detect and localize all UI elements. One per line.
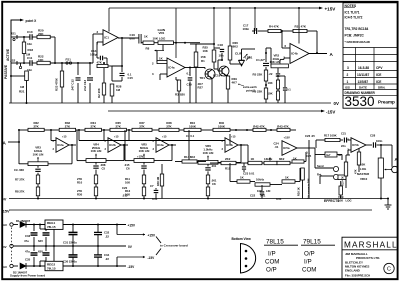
svg-text:C9 .068: C9 .068: [14, 168, 24, 172]
svg-text:IC1 TL071: IC1 TL071: [345, 11, 360, 15]
svg-text:10K LIN: 10K LIN: [139, 149, 150, 153]
capacitor C12 .047 vertical: [77, 62, 79, 64]
dashed mains boundary: [11, 228, 13, 264]
capacitor C30 2200u: [69, 254, 78, 256]
svg-text:COM: COM: [265, 259, 279, 266]
transistor TR2: [219, 66, 229, 76]
svg-text:A: A: [395, 157, 398, 162]
svg-text:+15: +15: [231, 135, 236, 139]
svg-text:1M: 1M: [116, 88, 121, 92]
svg-text:DATE: DATE: [359, 85, 367, 89]
svg-text:R5 22K: R5 22K: [253, 73, 264, 77]
svg-text:C: C: [387, 267, 391, 273]
svg-text:IC5b: IC5b: [352, 143, 359, 147]
svg-text:1K: 1K: [251, 157, 256, 161]
svg-text:R18: R18: [28, 48, 34, 52]
svg-text:TR1,TR2 BC184: TR1,TR2 BC184: [345, 27, 369, 31]
pot VR5 wiper arrow: [143, 154, 145, 159]
wire VR4 input drop: [78, 129, 80, 131]
wire +15V out PSU: [63, 224, 126, 226]
svg-text:R7 27K: R7 27K: [15, 178, 24, 182]
wire VR4 chain: [95, 162, 97, 164]
svg-text:0V: 0V: [334, 101, 339, 106]
svg-text:LOG: LOG: [346, 199, 352, 203]
resistor VR3 chain R lower 27K: [36, 187, 39, 196]
wire feedback row C17: [254, 8, 256, 31]
svg-text:.22: .22: [105, 234, 109, 238]
svg-text:IC4-5 TL072: IC4-5 TL072: [345, 16, 363, 20]
pot VR2 wiper arrow: [279, 60, 281, 64]
pot VR10 wiper arrow: [385, 169, 391, 171]
resistor VR6 chain R lower 27K: [206, 187, 209, 196]
svg-text:2n2 C13: 2n2 C13: [83, 80, 87, 91]
svg-text:1K: 1K: [144, 35, 149, 39]
svg-text:8K2: 8K2: [233, 45, 239, 49]
svg-text:-15V: -15V: [148, 256, 156, 260]
svg-text:10K: 10K: [360, 163, 366, 167]
svg-text:TR1: TR1: [200, 76, 206, 80]
svg-text:R8 27K: R8 27K: [15, 190, 24, 194]
svg-text:IC2a: IC2a: [57, 143, 64, 147]
wire VR6 pot ends: [189, 161, 198, 163]
svg-text:10kHz: 10kHz: [256, 177, 265, 181]
svg-text:C5: C5: [102, 167, 106, 171]
wire VR3 pot ends: [19, 163, 28, 165]
svg-text:R23 470K: R23 470K: [55, 77, 59, 91]
svg-text:3: 3: [152, 72, 154, 76]
svg-text:File: 3530PRE.SCH: File: 3530PRE.SCH: [345, 274, 370, 278]
svg-text:DRN.: DRN.: [378, 85, 385, 89]
svg-text:820: 820: [180, 93, 185, 97]
svg-text:I/P: I/P: [304, 259, 312, 266]
svg-text:63V: 63V: [38, 239, 43, 243]
svg-text:+15: +15: [62, 135, 67, 139]
svg-text:to Crossover board: to Crossover board: [160, 244, 188, 248]
wire +15V tap arrow: [116, 225, 118, 235]
wire VR5 chain: [143, 162, 145, 164]
svg-text:47K: 47K: [97, 60, 103, 64]
svg-text:0V: 0V: [3, 245, 7, 249]
svg-text:78L15: 78L15: [47, 225, 56, 229]
svg-text:C15: C15: [128, 76, 134, 80]
capacitor C34 47u lower: [33, 246, 35, 251]
rail 0V bottom section: [9, 198, 388, 200]
svg-text:NP: NP: [338, 153, 342, 157]
svg-text:10K: 10K: [203, 49, 209, 53]
svg-text:10n: 10n: [219, 54, 224, 58]
svg-text:BC184: BC184: [213, 74, 222, 78]
capacitor C31 2200u: [69, 231, 78, 233]
svg-text:10K LIN: 10K LIN: [91, 149, 102, 153]
svg-text:C26 .05: C26 .05: [305, 134, 315, 138]
wire IC4b feedback: [316, 31, 318, 53]
svg-text:C23 0.01: C23 0.01: [243, 172, 255, 176]
wire row2 input bus: [18, 130, 20, 164]
svg-text:79L15: 79L15: [47, 266, 56, 270]
svg-text:10K LOG: 10K LOG: [153, 36, 167, 40]
svg-text:FS1: FS1: [66, 57, 72, 61]
wire to effects send: [309, 147, 315, 149]
marshall box: [342, 237, 397, 279]
svg-text:C8: C8: [212, 182, 216, 186]
svg-text:1K: 1K: [159, 56, 164, 60]
svg-text:R36 1M: R36 1M: [156, 177, 160, 186]
resistor R36 1M vertical: [160, 174, 163, 186]
rail 0V top section: [9, 102, 331, 104]
svg-text:78L15: 78L15: [266, 239, 284, 246]
wire IC1 output: [118, 37, 139, 39]
wire -15V tap arrow: [116, 257, 118, 266]
svg-text:10K: 10K: [268, 81, 273, 85]
svg-text:79L15: 79L15: [303, 239, 321, 246]
svg-text:C1,22*: C1,22*: [256, 58, 266, 62]
svg-text:0.01: 0.01: [276, 197, 282, 201]
svg-text:+15V: +15V: [284, 136, 291, 140]
svg-text:C10: C10: [27, 30, 33, 34]
svg-text:10K LIN: 10K LIN: [33, 152, 44, 156]
svg-text:1K: 1K: [285, 176, 290, 180]
svg-text:LIN: LIN: [266, 189, 270, 193]
svg-text:R30: R30: [77, 193, 83, 197]
svg-text:Preamp: Preamp: [378, 100, 395, 105]
wire R20 to lower path: [54, 37, 56, 63]
svg-text:point X: point X: [26, 19, 38, 23]
svg-text:O/P: O/P: [266, 267, 277, 274]
svg-text:3: 3: [97, 30, 99, 34]
pot VR4 wiper arrow: [95, 154, 97, 159]
svg-text:IC4a: IC4a: [168, 66, 175, 70]
resistor R19 47K vertical: [344, 162, 347, 176]
regulator REG1 common lead: [53, 229, 55, 246]
svg-text:3: 3: [347, 66, 349, 70]
svg-text:100n: 100n: [376, 139, 383, 143]
svg-text:C19: C19: [187, 83, 193, 87]
transistor TR1: [205, 69, 215, 79]
svg-text:IC3b: IC3b: [226, 143, 233, 147]
capacitor VR4 chain cap: [93, 165, 98, 167]
capacitor C32 .22 upper: [94, 231, 102, 233]
svg-text:*=MICROFARAHD: *=MICROFARAHD: [345, 40, 371, 44]
resistor R23 470K vertical: [61, 62, 63, 64]
svg-text:C25: C25: [306, 154, 312, 158]
svg-text:2K2: 2K2: [225, 157, 231, 161]
effects lower row: [230, 181, 237, 183]
wire IC4b output to A: [309, 53, 327, 55]
svg-text:+15V: +15V: [148, 233, 156, 237]
svg-text:C30 2200u: C30 2200u: [63, 259, 77, 263]
svg-text:2: 2: [347, 73, 349, 77]
svg-text:R8: R8: [146, 47, 150, 51]
svg-text:C7: C7: [150, 184, 154, 188]
svg-text:1: 1: [347, 80, 349, 84]
svg-text:R17 100K: R17 100K: [324, 134, 337, 138]
svg-text:IC2b: IC2b: [109, 143, 116, 147]
rail -15V top section: [108, 110, 322, 112]
svg-text:47u: 47u: [25, 250, 30, 254]
svg-text:100p: 100p: [90, 52, 97, 56]
svg-text:R31 47K: R31 47K: [295, 25, 307, 29]
svg-text:.22: .22: [269, 72, 273, 76]
wire VR6 chain: [207, 164, 209, 166]
svg-text:PCB: JMP2C: PCB: JMP2C: [345, 34, 365, 38]
wire VR3 chain: [37, 166, 39, 168]
rail -15V bottom section: [9, 209, 372, 211]
wire VR3 input drop: [50, 129, 52, 131]
svg-text:PRODUCTS LTD.: PRODUCTS LTD.: [356, 256, 380, 260]
svg-text:CPV: CPV: [376, 66, 383, 70]
svg-text:0V: 0V: [2, 197, 7, 202]
svg-text:Bottom View: Bottom View: [232, 237, 252, 241]
svg-text:3: 3: [222, 147, 224, 151]
capacitor VR6 chain cap: [205, 167, 210, 169]
svg-text:PASSIVE: PASSIVE: [4, 64, 8, 79]
copyright symbol: [384, 263, 394, 273]
resistor R21b 47K vertical: [357, 152, 360, 165]
svg-text:EFFECTS: EFFECTS: [324, 199, 340, 203]
svg-text:Supply from Power board: Supply from Power board: [10, 274, 45, 278]
resistor R29 4K7 vertical: [226, 75, 228, 77]
svg-text:Send: Send: [317, 164, 324, 168]
svg-text:LOG: LOG: [360, 167, 367, 171]
point X arrow: [11, 20, 21, 33]
capacitor C37 47u lower2: [45, 246, 47, 251]
svg-text:47u: 47u: [24, 239, 29, 243]
svg-text:3: 3: [105, 147, 107, 151]
svg-text:-15V: -15V: [128, 265, 136, 269]
svg-text:MASTER: MASTER: [357, 172, 370, 176]
component Rd box: [338, 175, 346, 180]
svg-text:.22: .22: [105, 257, 109, 261]
resistor VR5 chain R lower 27K: [142, 187, 145, 196]
capacitor C13 2n2 vertical: [89, 62, 91, 64]
svg-text:10n: 10n: [27, 42, 32, 46]
svg-text:NOTES: NOTES: [345, 4, 357, 8]
svg-text:.001: .001: [211, 164, 217, 168]
svg-text:C4 0.1: C4 0.1: [186, 134, 195, 138]
svg-text:1K: 1K: [240, 176, 245, 180]
resistor R21 1M vertical: [11, 75, 27, 77]
wire -15V out PSU: [63, 265, 126, 267]
svg-text:ENGLAND: ENGLAND: [345, 268, 361, 272]
wire VR5 pot ends: [125, 160, 134, 162]
svg-text:+15V: +15V: [128, 223, 136, 227]
wire VR6 input drop: [128, 129, 130, 131]
capacitor C33 47u 63V upper: [33, 225, 35, 232]
svg-text:16-5-88: 16-5-88: [358, 66, 369, 70]
svg-text:R4 47K: R4 47K: [269, 25, 280, 29]
svg-text:C33: C33: [25, 234, 31, 238]
resistor R3 820 vertical: [175, 77, 177, 80]
svg-text:22n: 22n: [341, 144, 346, 148]
svg-text:CLIP: CLIP: [235, 52, 242, 56]
resistor R2 10K vertical: [103, 62, 105, 64]
wire VR5 input drop: [103, 129, 105, 131]
svg-text:.015: .015: [122, 194, 128, 198]
svg-text:4u7: 4u7: [326, 153, 331, 157]
capacitor C2 0.1 vertical: [284, 76, 286, 87]
svg-text:AC: AC: [3, 265, 8, 269]
resistor R16 1K vertical: [301, 168, 305, 180]
svg-text:.047 C12: .047 C12: [71, 79, 75, 91]
resistor VR4 chain R lower 27K: [94, 187, 97, 196]
svg-text:-15V: -15V: [326, 110, 335, 115]
svg-text:3530: 3530: [345, 94, 375, 109]
svg-text:IC4b: IC4b: [291, 52, 298, 56]
svg-text:R19 47K: R19 47K: [342, 176, 345, 186]
capacitor C15 0.1 feedback: [121, 38, 123, 66]
capacitor VR3 chain cap: [35, 168, 40, 170]
svg-text:IC1: IC1: [104, 36, 109, 40]
svg-text:R21: R21: [19, 90, 25, 94]
svg-text:3: 3: [53, 147, 55, 151]
svg-text:10K LIN: 10K LIN: [270, 60, 281, 64]
svg-text:C35: C35: [25, 257, 31, 261]
wire VR4 pot ends: [77, 160, 86, 162]
svg-text:13/5/87: 13/5/87: [358, 80, 369, 84]
svg-text:MARSHALL: MARSHALL: [344, 241, 398, 250]
svg-text:VR1: VR1: [159, 31, 165, 35]
capacitor C19 0.1: [189, 74, 191, 76]
svg-text:100n: 100n: [243, 27, 250, 31]
svg-text:0V: 0V: [128, 245, 133, 249]
svg-text:R16 1K: R16 1K: [297, 187, 301, 196]
svg-text:R14 8K2: R14 8K2: [184, 155, 195, 159]
wire to VR2: [204, 68, 206, 70]
svg-text:C11: C11: [27, 56, 33, 60]
wire input bus left: [11, 36, 13, 38]
svg-text:C6: C6: [126, 167, 130, 171]
pot VR6 wiper arrow: [207, 156, 209, 161]
rail +15V top: [109, 7, 320, 9]
svg-text:8K2: 8K2: [279, 157, 285, 161]
svg-text:AC: AC: [3, 223, 8, 227]
resistor VR6 chain R upper 27K: [206, 175, 209, 184]
svg-text:I/P: I/P: [268, 251, 276, 258]
svg-text:C28: C28: [370, 133, 376, 137]
svg-text:R6 22K: R6 22K: [253, 90, 264, 94]
resistor R42 47K: [230, 129, 253, 131]
resistor R1 15K vertical: [194, 52, 198, 67]
capacitor C34b .22 lower: [94, 254, 102, 256]
revision table lines: [343, 47, 397, 49]
svg-text:R10: R10: [77, 181, 83, 185]
wire IC5b output: [366, 144, 372, 146]
svg-text:+15V: +15V: [325, 6, 337, 11]
svg-text:.01: .01: [275, 145, 279, 149]
svg-text:0.1: 0.1: [287, 88, 291, 92]
svg-text:ISS: ISS: [345, 85, 350, 89]
regulator REG2 79L15: [45, 261, 63, 270]
regulator REG2 common lead: [53, 246, 55, 261]
svg-text:C22: C22: [250, 194, 256, 198]
regulator REG1 78L15: [45, 220, 63, 229]
svg-text:-15V: -15V: [2, 210, 10, 214]
svg-text:ICE: ICE: [376, 80, 381, 84]
svg-text:D1 1N4007: D1 1N4007: [16, 219, 31, 223]
svg-text:2: 2: [152, 61, 154, 65]
capacitor C36 47u upper2: [45, 229, 47, 231]
svg-text:extra earth: extra earth: [243, 85, 257, 89]
notes box: [343, 3, 397, 108]
svg-text:COM: COM: [302, 267, 316, 274]
svg-text:ICE: ICE: [376, 73, 381, 77]
wire IC3b output: [239, 144, 248, 146]
resistor VR5 chain R upper 27K: [142, 175, 145, 184]
svg-text:0.01: 0.01: [152, 197, 158, 201]
svg-text:C18: C18: [218, 43, 224, 47]
svg-text:10K: 10K: [268, 92, 273, 96]
resistor R26 8K2 vertical: [229, 8, 231, 46]
op-amp IC1: [92, 34, 94, 63]
svg-text:63V: 63V: [38, 250, 43, 254]
svg-text:A: A: [3, 141, 7, 146]
resistor VR3 chain R upper 27K: [36, 175, 39, 184]
svg-text:+15: +15: [162, 135, 167, 139]
resistor R18 1M vertical: [23, 37, 25, 42]
resistor R43 47K: [266, 129, 277, 131]
svg-text:C31 2200u: C31 2200u: [63, 241, 77, 245]
svg-text:R2 10K: R2 10K: [97, 87, 101, 98]
svg-text:10K: 10K: [125, 181, 130, 185]
svg-text:3: 3: [153, 147, 155, 151]
svg-text:4K7: 4K7: [232, 81, 238, 85]
svg-text:13kHz: 13kHz: [264, 157, 273, 161]
svg-text:IC3a: IC3a: [157, 143, 164, 147]
svg-text:C21: C21: [341, 132, 346, 136]
svg-text:A: A: [330, 52, 334, 57]
capacitor VR5 chain cap: [141, 165, 146, 167]
resistor VR4 chain R upper 27K: [94, 175, 97, 184]
svg-text:80n: 80n: [130, 36, 135, 40]
svg-text:+15: +15: [114, 135, 119, 139]
wire IC4a out to TR1: [200, 67, 205, 69]
svg-text:13/11/87: 13/11/87: [357, 73, 369, 77]
capacitor C27 4u7 NP: [325, 152, 337, 157]
ground symbol bottom right: [387, 199, 389, 206]
svg-text:VR10: VR10: [360, 177, 368, 181]
svg-text:O/P: O/P: [304, 251, 315, 258]
pot VR3 wiper arrow: [37, 157, 39, 162]
effects screen line: [308, 140, 310, 199]
transistor pins dots: [245, 250, 248, 253]
svg-text:+15V: +15V: [137, 155, 144, 159]
resistor R28 1M vertical: [112, 65, 122, 67]
svg-text:C20: C20: [122, 186, 128, 190]
pot VR1 wiper arrow: [162, 45, 164, 51]
svg-text:R3: R3: [175, 93, 179, 97]
svg-text:R1: R1: [201, 59, 205, 63]
svg-text:10K LIN: 10K LIN: [203, 151, 214, 155]
transistor case outline TO-92: [241, 244, 256, 274]
svg-text:R27: R27: [198, 86, 204, 90]
svg-text:IC5a: IC5a: [283, 146, 290, 150]
svg-text:1M: 1M: [20, 85, 25, 89]
svg-text:6: 6: [285, 44, 287, 48]
